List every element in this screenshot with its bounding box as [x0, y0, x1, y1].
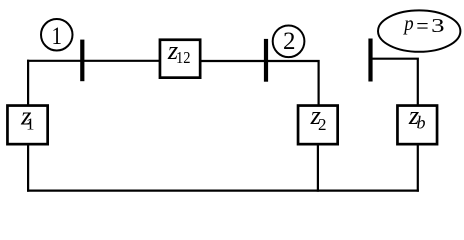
svg-text:1: 1 — [26, 114, 35, 133]
impedance z2 box — [298, 106, 338, 145]
busbar 1 — [80, 40, 84, 82]
busbar 3 — [368, 39, 372, 82]
busbar 2 — [264, 39, 268, 82]
svg-text:p: p — [403, 11, 414, 35]
impedance z1 box — [7, 106, 47, 145]
wire: bottom return bus — [27, 190, 419, 192]
svg-text:1: 1 — [52, 23, 63, 50]
svg-text:2: 2 — [318, 115, 327, 134]
impedance zb box — [397, 106, 437, 145]
svg-text:3: 3 — [431, 15, 444, 37]
svg-text:2: 2 — [283, 28, 296, 55]
svg-text:=: = — [416, 13, 428, 38]
svg-text:b: b — [417, 112, 426, 132]
wire: zb down to return bus — [417, 145, 419, 192]
wire: z1 down to return bus — [27, 145, 29, 192]
wire: node 1 corner down to z1 — [27, 60, 29, 105]
wire: busbar 3 to corner down to zb — [372, 59, 418, 105]
node 1 bus number circle — [41, 19, 73, 51]
node 3 bubble (ellipse) — [378, 10, 460, 51]
wire: node 1 horizontal to z12 — [27, 60, 159, 62]
svg-text:12: 12 — [176, 48, 191, 67]
wire: z2 down to return bus — [317, 145, 319, 192]
node 2 bus number circle — [273, 25, 305, 57]
wire: z12 to busbar 2 and corner down to z2 — [201, 61, 319, 105]
impedance z12 box — [160, 40, 200, 78]
